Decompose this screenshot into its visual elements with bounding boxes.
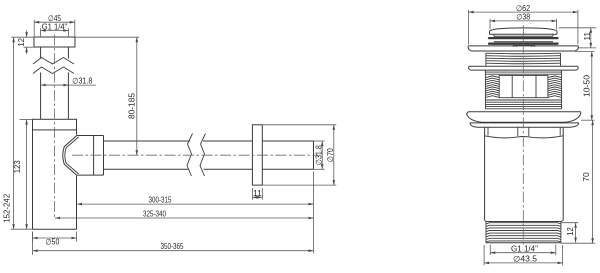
dimension G1 1/4 inch bottom (490, 244, 556, 255)
dimension D31.8 inlet tube (41, 76, 96, 85)
lock nut saucer (470, 123, 579, 127)
cap seal ring 2 (489, 43, 558, 45)
neck thread (486, 53, 561, 66)
dome washer saucer (467, 112, 581, 123)
top flange rim (468, 46, 578, 51)
svg-text:G1 1/4": G1 1/4" (42, 22, 68, 31)
svg-text:152-242: 152-242 (2, 193, 11, 223)
tube break zigzag upper (33, 58, 74, 65)
svg-text:12: 12 (566, 227, 575, 236)
inlet tube upper segment (41, 47, 69, 59)
tube break zigzag lower (33, 67, 74, 74)
cap seal ring 1 (489, 37, 558, 39)
trap body cup (33, 130, 77, 229)
horizontal pipe right of break (203, 141, 252, 169)
horizontal centerline of pipe (72, 154, 319, 156)
svg-text:∅62: ∅62 (516, 4, 530, 13)
pipe break zigzag left (187, 134, 193, 177)
threaded body right coil column (548, 76, 562, 98)
svg-text:123: 123 (13, 160, 22, 174)
vertical centerline of waste (522, 25, 524, 247)
dimension 350-365 (33, 172, 314, 255)
svg-text:11: 11 (583, 31, 592, 40)
svg-text:300-315: 300-315 (149, 196, 172, 205)
elbow outlet (63, 136, 94, 176)
dimension 12 flange height (12, 31, 35, 54)
svg-text:80-185: 80-185 (127, 92, 136, 119)
cap band inset 1 (494, 34, 553, 36)
dimension 80-185 pipe height (75, 37, 139, 155)
dimension D62 (469, 4, 578, 45)
svg-text:∅50: ∅50 (45, 238, 59, 247)
inlet tube lower segment (41, 73, 69, 120)
dimension 152-242 overall height (2, 37, 32, 229)
cap stem lugs (513, 45, 534, 47)
horizontal pipe left of break (104, 141, 191, 169)
dimension 12 thread height rotated (561, 223, 579, 243)
threaded body top band (485, 72, 561, 74)
dimension G1 1/4 inch top (41, 22, 69, 36)
trap body top nut (33, 119, 77, 130)
washer disc (469, 66, 579, 70)
svg-text:∅38: ∅38 (516, 13, 530, 22)
main body (485, 127, 564, 220)
dimension 123 body height (13, 120, 33, 230)
dimension 10-50 clamping range rotated (575, 52, 595, 121)
svg-text:∅43.5: ∅43.5 (513, 255, 538, 264)
svg-text:∅31.8: ∅31.8 (315, 145, 324, 165)
wall flange on pipe (252, 125, 262, 185)
bottom thread G1 1/4 (485, 220, 564, 243)
svg-text:70: 70 (582, 172, 591, 182)
dimension 70 body height rotated (561, 120, 595, 243)
dimension 300-315 (77, 196, 314, 205)
dimension D50 (33, 232, 77, 247)
dimension 325-340 (55, 210, 314, 219)
body upper joint detail (485, 127, 564, 138)
svg-text:∅70: ∅70 (326, 148, 335, 162)
svg-text:G1 1/4": G1 1/4" (511, 244, 538, 253)
dimension D45 (34, 14, 75, 36)
svg-text:12: 12 (17, 37, 26, 46)
threaded body bottom band (485, 70, 561, 109)
outlet nut (94, 136, 104, 176)
vertical centerline of trap (54, 35, 56, 219)
svg-text:∅31.8: ∅31.8 (72, 76, 92, 85)
threaded body left coil column (486, 76, 500, 98)
overflow window (499, 75, 548, 97)
dimension D43.5 (484, 245, 562, 265)
svg-text:10-50: 10-50 (582, 74, 591, 97)
dimension D31.8 pipe rotated (314, 141, 325, 169)
dimension D70 wall flange rotated (262, 125, 336, 185)
cap band inset 2 (494, 41, 553, 43)
dimension D38 (490, 13, 557, 30)
dimension 11 wall flange width (252, 188, 262, 200)
dimension 11 cap height rotated (559, 28, 597, 48)
svg-text:325-340: 325-340 (143, 210, 166, 219)
svg-text:11: 11 (253, 189, 262, 198)
pipe end segment (262, 141, 313, 169)
popup cap dome (490, 28, 558, 34)
pipe break zigzag right (200, 134, 206, 177)
bottle trap top flange (34, 37, 75, 47)
svg-text:350-365: 350-365 (161, 242, 184, 251)
